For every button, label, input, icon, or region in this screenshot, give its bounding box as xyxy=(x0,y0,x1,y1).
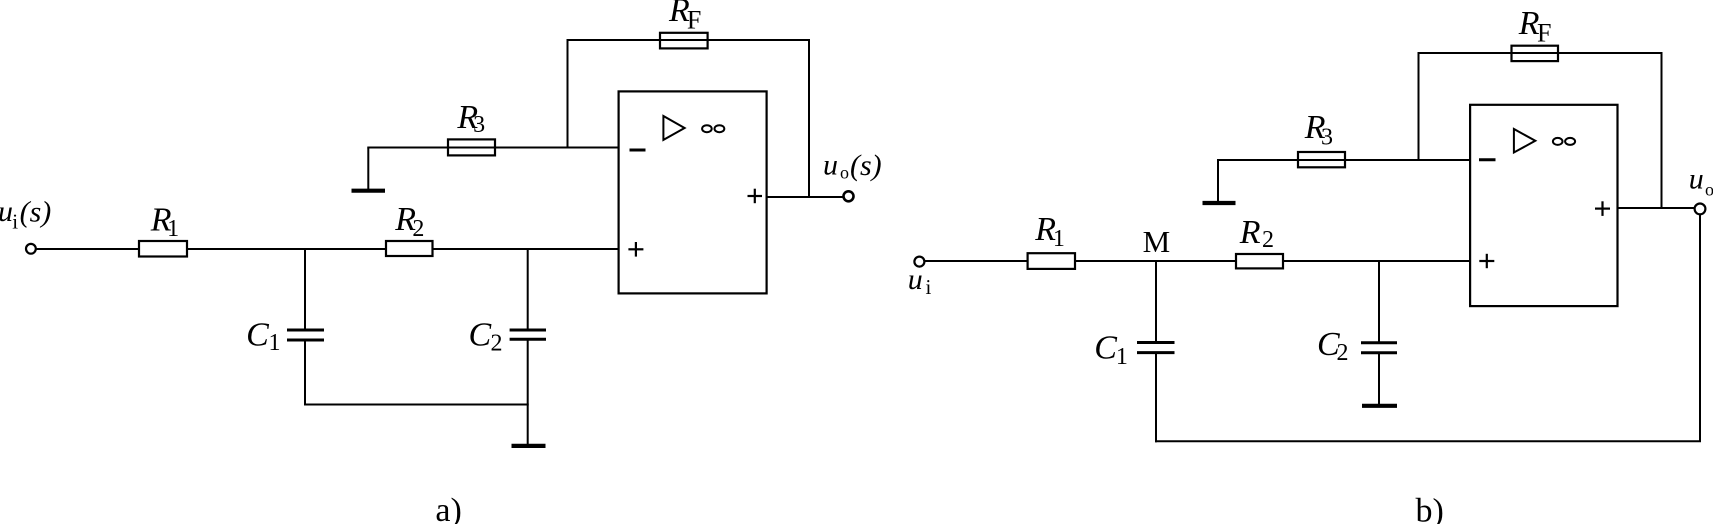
wire R1 to R2 xyxy=(1076,260,1236,262)
op-amp U1 output plus sign xyxy=(748,195,763,197)
resistor R3 xyxy=(1298,152,1345,167)
wire C1 branch upper (node M) xyxy=(1155,261,1157,343)
svg-text:F: F xyxy=(1537,19,1551,48)
op-amp U2 infinity xyxy=(1553,138,1563,145)
wire feedback top xyxy=(1418,52,1663,54)
wire feedback left vertical xyxy=(1418,53,1420,160)
svg-text:u: u xyxy=(0,195,13,228)
op-amp U1 box xyxy=(619,91,767,293)
wire bottom a xyxy=(304,404,529,406)
node uo(s) output terminal xyxy=(844,191,854,201)
wire C2 branch upper xyxy=(1378,261,1380,343)
svg-text:R: R xyxy=(1239,214,1261,251)
wire feedback right vertical xyxy=(808,40,810,197)
svg-text:u: u xyxy=(1689,162,1704,195)
capacitor C1 xyxy=(1137,341,1175,344)
svg-text:2: 2 xyxy=(1262,227,1274,253)
resistor R1 xyxy=(1028,253,1075,269)
capacitor C2 xyxy=(510,329,546,332)
resistor R3 xyxy=(448,139,495,155)
wire C1 branch upper xyxy=(304,249,306,330)
svg-text:(s): (s) xyxy=(850,149,882,182)
svg-text:u: u xyxy=(908,263,923,296)
op-amp U1 infinity xyxy=(702,125,712,132)
svg-text:3: 3 xyxy=(473,112,485,138)
svg-text:F: F xyxy=(687,5,701,34)
svg-text:(s): (s) xyxy=(20,196,52,229)
wire ground to R3 level xyxy=(367,148,369,190)
svg-text:o: o xyxy=(1705,180,1713,200)
svg-text:1: 1 xyxy=(1116,344,1128,370)
op-amp U1 triangle xyxy=(663,116,684,140)
wire C2 branch upper xyxy=(527,249,529,330)
capacitor C2 xyxy=(1361,341,1397,344)
svg-text:2: 2 xyxy=(412,216,424,242)
wire input to R1 xyxy=(36,248,139,250)
op-amp U2 plus input sign xyxy=(1479,260,1494,262)
svg-text:3: 3 xyxy=(1321,125,1333,151)
capacitor C1 xyxy=(287,329,324,332)
ground at R3 xyxy=(1203,201,1236,205)
resistor R2 xyxy=(386,241,433,256)
wire C1 branch lower xyxy=(304,340,306,406)
wire R3 horizontal to op-amp inverting input xyxy=(1217,159,1470,161)
op-amp U1 minus input sign xyxy=(630,149,646,152)
svg-text:M: M xyxy=(1143,224,1171,259)
wire op-amp output xyxy=(768,196,843,198)
svg-text:C: C xyxy=(469,316,492,353)
op-amp U2 minus input sign xyxy=(1479,158,1496,161)
svg-text:a): a) xyxy=(435,492,461,524)
resistor RF xyxy=(660,33,708,49)
wire R2 to op-amp noninverting input xyxy=(1284,260,1470,262)
resistor R1 xyxy=(139,241,187,257)
wire output down to bottom feedback xyxy=(1699,215,1701,441)
svg-text:o: o xyxy=(840,163,849,183)
ground below C2 xyxy=(512,444,546,448)
svg-text:1: 1 xyxy=(1053,226,1065,252)
node ui(s) input terminal xyxy=(26,244,36,254)
svg-text:C: C xyxy=(246,316,269,353)
svg-text:b): b) xyxy=(1416,492,1444,524)
wire R3 horizontal to op-amp inverting input xyxy=(367,147,618,149)
svg-text:i: i xyxy=(12,210,18,234)
wire ground to R3 level xyxy=(1217,160,1219,202)
op-amp U2 box xyxy=(1470,105,1617,306)
svg-text:2: 2 xyxy=(1337,340,1349,366)
svg-text:1: 1 xyxy=(269,330,281,356)
wire C2 branch lower to ground xyxy=(527,339,529,445)
wire R1 to R2 xyxy=(188,248,386,250)
svg-text:u: u xyxy=(823,149,838,182)
wire feedback right vertical xyxy=(1661,53,1663,208)
resistor R2 xyxy=(1236,254,1283,268)
ground at R3 xyxy=(352,189,386,193)
ground below C2 xyxy=(1362,404,1397,408)
wire bottom feedback b xyxy=(1155,440,1701,442)
svg-text:2: 2 xyxy=(491,331,503,357)
wire input to R1 xyxy=(925,260,1028,262)
svg-text:1: 1 xyxy=(167,216,179,242)
node ui input terminal xyxy=(914,257,924,267)
resistor RF xyxy=(1512,46,1559,61)
wire feedback top xyxy=(567,39,811,41)
svg-text:C: C xyxy=(1094,330,1117,367)
node uo output terminal xyxy=(1695,204,1706,215)
wire op-amp output xyxy=(1618,207,1694,209)
wire R2 to op-amp noninverting input xyxy=(433,248,618,250)
svg-text:i: i xyxy=(926,275,932,299)
op-amp U2 triangle xyxy=(1514,129,1535,153)
op-amp U1 plus input sign xyxy=(628,248,643,250)
wire C1 branch lower xyxy=(1155,353,1157,443)
wire C2 branch lower to ground xyxy=(1378,353,1380,405)
op-amp U2 output plus sign xyxy=(1595,208,1610,210)
wire feedback left vertical xyxy=(567,40,569,148)
